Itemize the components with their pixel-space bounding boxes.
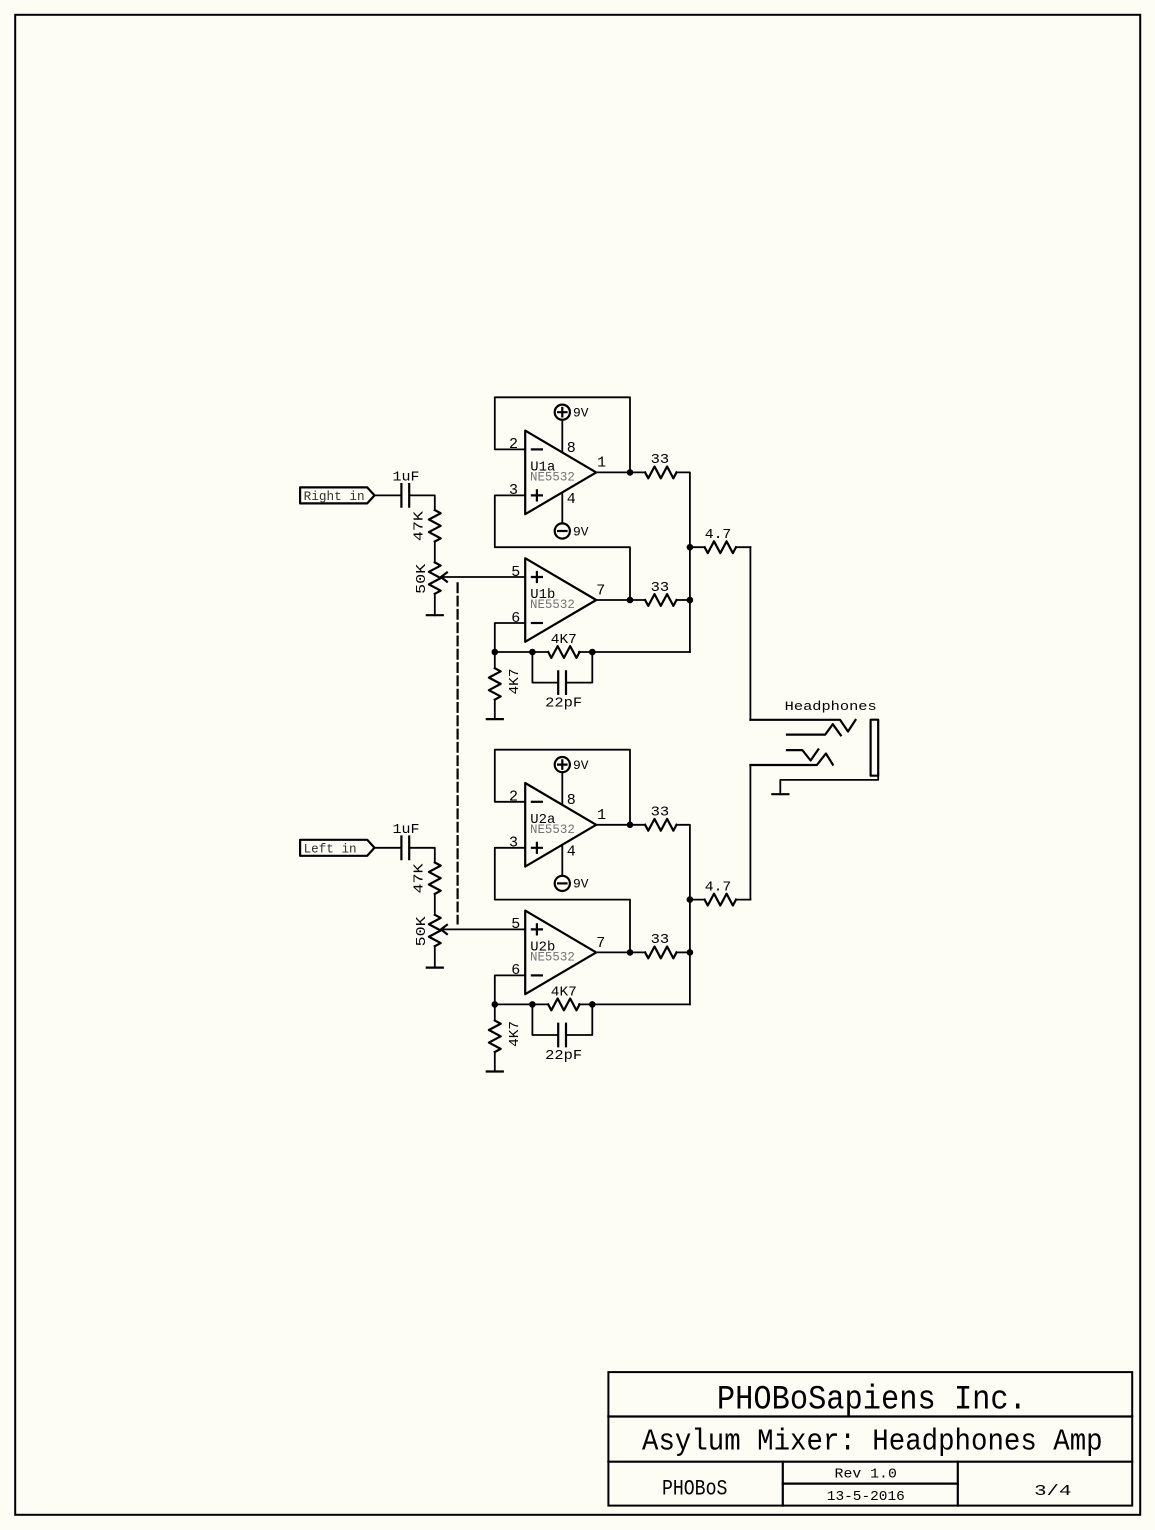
- headphone jack tip switch contact: [787, 724, 841, 735]
- U1a non-inverting input marker: [532, 490, 542, 500]
- U2b inverting input marker: [532, 974, 542, 976]
- +9V supply symbol: [555, 757, 570, 772]
- U2a inverting input marker: [532, 801, 542, 803]
- svg-text:PHOBoS: PHOBoS: [662, 1476, 728, 1501]
- resistor 4K7 (feedback): [548, 646, 579, 658]
- wire: 22pF branch left: [532, 652, 557, 683]
- capacitor C 1uF: [401, 484, 409, 507]
- junction: feedback left node: [492, 649, 499, 656]
- svg-text:NE5532: NE5532: [530, 950, 575, 964]
- svg-text:1: 1: [597, 807, 606, 824]
- junction: 4.7 tap: [687, 544, 694, 551]
- U2b non-inverting input marker: [532, 924, 542, 934]
- resistor 33 (U1a output): [645, 467, 676, 479]
- headphone jack tip contact: [750, 720, 855, 732]
- capacitor 22pF: [558, 671, 566, 694]
- junction: U2b output node: [627, 949, 634, 956]
- U2a non-inverting input marker: [532, 843, 542, 853]
- title block frame: [608, 1372, 1132, 1506]
- headphone jack ring switch contact: [787, 749, 818, 760]
- svg-text:8: 8: [567, 792, 576, 809]
- wire: U2a pin 8 to +9V: [561, 772, 563, 805]
- title block rev/date divider: [783, 1482, 958, 1484]
- svg-text:NE5532: NE5532: [530, 470, 575, 484]
- wire: U2a pin 2 feedback loop from output: [495, 750, 630, 825]
- wire: wiper to U2b pin 5: [441, 928, 525, 930]
- svg-text:Left in: Left in: [304, 841, 357, 856]
- input connector flag "Left in": [300, 840, 374, 856]
- resistor 33 (U2a output): [645, 819, 676, 831]
- ground symbol (4K7): [487, 718, 503, 720]
- svg-text:NE5532: NE5532: [530, 823, 575, 837]
- op-amp U2a (NE5532): [525, 783, 596, 867]
- U1b non-inverting input marker: [532, 572, 542, 582]
- svg-text:4: 4: [567, 491, 576, 508]
- wire: capacitor to 47K resistor: [410, 495, 435, 510]
- -9V supply symbol: [555, 523, 570, 538]
- junction: 22pF right: [589, 649, 596, 656]
- svg-text:4: 4: [567, 843, 576, 860]
- op-amp U1a (NE5532): [525, 431, 596, 515]
- svg-text:NE5532: NE5532: [530, 598, 575, 612]
- junction: 22pF left: [529, 1001, 536, 1008]
- wire: U1a pin 2 feedback loop from output: [495, 397, 630, 472]
- wire: left channel 4.7 to jack ring: [749, 765, 751, 900]
- wire: sleeve to ground: [780, 776, 878, 795]
- junction: summing node at lower 33: [687, 597, 694, 604]
- wire: 47K to potentiometer: [434, 542, 436, 563]
- wire: 33 to summing node: [677, 825, 690, 1005]
- wire: U1a pin 3 loop to U1b output node: [495, 495, 630, 600]
- svg-text:2: 2: [509, 789, 518, 806]
- wire: feedback line: [495, 1003, 690, 1005]
- op-amp U2b (NE5532): [525, 911, 596, 995]
- capacitor C 1uF: [401, 837, 409, 860]
- title block column divider 1: [782, 1462, 784, 1506]
- wire: U2b pin 7 output to 33 resistor: [596, 951, 645, 953]
- wire: right channel 4.7 to jack tip: [749, 547, 751, 720]
- svg-text:4K7: 4K7: [551, 633, 577, 648]
- U1a inverting input marker: [532, 448, 542, 450]
- svg-text:6: 6: [511, 610, 520, 627]
- svg-text:9V: 9V: [573, 407, 589, 421]
- potentiometer wiper arrow: [441, 925, 447, 934]
- wire: 47K to potentiometer: [434, 894, 436, 915]
- wire: U2a pin 3 loop to U2b output node: [495, 848, 630, 953]
- svg-text:3: 3: [509, 482, 518, 499]
- svg-text:33: 33: [651, 581, 670, 596]
- wire: U2a pin 1 output to 33 resistor: [596, 824, 645, 826]
- svg-text:1uF: 1uF: [393, 823, 420, 838]
- headphone jack sleeve bar: [871, 720, 879, 776]
- wire: U1b pin 6 to feedback node: [495, 623, 525, 652]
- wire: 22pF branch right: [567, 652, 592, 683]
- svg-text:33: 33: [651, 453, 670, 468]
- wire: node to 4.7: [690, 899, 705, 901]
- junction: U1b output node: [627, 597, 634, 604]
- svg-text:8: 8: [567, 440, 576, 457]
- resistor 33 (U2b output): [645, 947, 676, 959]
- svg-text:3/4: 3/4: [1034, 1483, 1071, 1500]
- wire: 4.7 to jack: [736, 899, 750, 901]
- svg-text:5: 5: [511, 916, 520, 933]
- resistor 33 (U1b output): [645, 594, 676, 606]
- ground symbol (pot): [427, 614, 443, 616]
- U1b inverting input marker: [532, 622, 542, 624]
- junction: 22pF left: [529, 649, 536, 656]
- svg-text:9V: 9V: [573, 878, 589, 892]
- wire: U1a pin 1 output to 33 resistor: [596, 471, 645, 473]
- wire: wiper to U1b pin 5: [441, 576, 525, 578]
- wire: 22pF branch left: [532, 1004, 557, 1035]
- wire: input flag to capacitor: [375, 847, 401, 849]
- junction: 22pF right: [589, 1001, 596, 1008]
- svg-text:1: 1: [597, 454, 606, 471]
- svg-text:22pF: 22pF: [545, 1049, 582, 1064]
- junction: 4.7 tap: [687, 896, 694, 903]
- svg-text:4.7: 4.7: [705, 528, 732, 543]
- ground symbol (pot): [427, 966, 443, 968]
- +9V supply symbol: [555, 405, 570, 420]
- wire: 22pF branch right: [567, 1004, 592, 1035]
- svg-text:5: 5: [511, 564, 520, 581]
- svg-text:Rev 1.0: Rev 1.0: [835, 1466, 897, 1482]
- svg-text:Right in: Right in: [304, 489, 365, 504]
- svg-text:9V: 9V: [573, 759, 589, 773]
- svg-text:4K7: 4K7: [508, 669, 523, 695]
- svg-text:7: 7: [596, 935, 605, 952]
- headphone jack ring contact: [750, 754, 832, 766]
- resistor 4K7 (feedback): [548, 999, 579, 1011]
- wire: capacitor to 47K resistor: [410, 848, 435, 863]
- dashed gang link between potentiometers: [457, 583, 459, 923]
- wire: input flag to capacitor: [375, 494, 401, 496]
- resistor 4.7 (output): [705, 894, 736, 906]
- svg-text:Headphones: Headphones: [785, 699, 877, 714]
- svg-text:2: 2: [509, 436, 518, 453]
- wire: lower 33 to summing node: [677, 951, 690, 953]
- wire: U1b pin 7 output to 33 resistor: [596, 599, 645, 601]
- svg-text:50K: 50K: [415, 915, 430, 946]
- wire: potentiometer to ground: [434, 594, 436, 615]
- svg-text:47K: 47K: [413, 862, 428, 893]
- junction: summing node at lower 33: [687, 949, 694, 956]
- svg-text:6: 6: [511, 962, 520, 979]
- wire: 4K7 to ground symbol: [494, 700, 496, 720]
- svg-text:Asylum Mixer: Headphones Amp: Asylum Mixer: Headphones Amp: [642, 1425, 1103, 1460]
- junction: feedback left node: [492, 1001, 499, 1008]
- wire: U2a pin 4 to -9V: [561, 845, 563, 876]
- wire: U1a pin 8 to +9V: [561, 420, 563, 453]
- svg-text:47K: 47K: [413, 510, 428, 541]
- svg-text:1uF: 1uF: [393, 471, 420, 486]
- ground symbol (4K7): [487, 1070, 503, 1072]
- resistor 4K7 (to ground): [494, 1004, 496, 1020]
- resistor 47K (vertical): [429, 863, 441, 894]
- junction: U2a output/pin2 feedback: [627, 822, 634, 829]
- junction: U1a output/pin2 feedback: [627, 469, 634, 476]
- svg-text:50K: 50K: [415, 563, 430, 594]
- svg-text:4K7: 4K7: [551, 985, 577, 1000]
- wire: 4K7 to ground symbol: [494, 1052, 496, 1072]
- potentiometer 50K (vertical): [429, 915, 441, 946]
- title block row divider 2: [608, 1461, 1132, 1463]
- svg-text:7: 7: [596, 583, 605, 600]
- wire: U1a pin 4 to -9V: [561, 492, 563, 523]
- svg-text:13-5-2016: 13-5-2016: [827, 1489, 905, 1505]
- svg-text:33: 33: [651, 933, 670, 948]
- wire: potentiometer to ground: [434, 946, 436, 967]
- svg-text:3: 3: [509, 835, 518, 852]
- potentiometer wiper arrow: [441, 573, 447, 582]
- resistor 4.7 (output): [705, 541, 736, 553]
- resistor 47K (vertical): [429, 510, 441, 541]
- wire: lower 33 to summing node: [677, 599, 690, 601]
- op-amp U1b (NE5532): [525, 558, 596, 642]
- wire: 4.7 to jack: [736, 546, 750, 548]
- input connector flag "Right in": [300, 487, 374, 503]
- svg-text:4K7: 4K7: [508, 1021, 523, 1047]
- svg-text:22pF: 22pF: [545, 696, 582, 711]
- svg-text:4.7: 4.7: [705, 880, 732, 895]
- wire: U2b pin 6 to feedback node: [495, 975, 525, 1004]
- resistor 4K7 (to ground): [494, 652, 496, 668]
- wire: feedback line: [495, 651, 690, 653]
- title block column divider 2: [957, 1462, 959, 1506]
- svg-text:9V: 9V: [573, 525, 589, 539]
- ground symbol (jack): [772, 793, 788, 795]
- capacitor 22pF: [558, 1024, 566, 1047]
- svg-text:33: 33: [651, 806, 670, 821]
- title block row divider 1: [608, 1415, 1132, 1417]
- wire: 33 to summing node: [677, 472, 690, 652]
- wire: node to 4.7: [690, 546, 705, 548]
- potentiometer 50K (vertical): [429, 562, 441, 593]
- svg-text:PHOBoSapiens Inc.: PHOBoSapiens Inc.: [717, 1381, 1027, 1419]
- -9V supply symbol: [555, 876, 570, 891]
